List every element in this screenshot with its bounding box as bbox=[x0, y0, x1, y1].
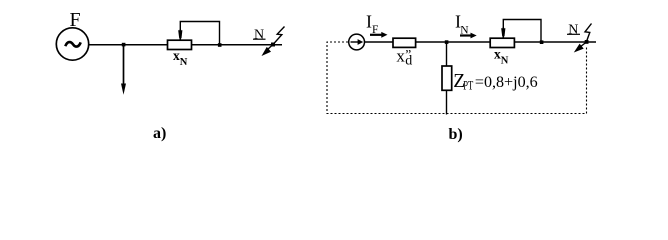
svg-text:N: N bbox=[568, 22, 578, 37]
arrow into box a bbox=[178, 30, 182, 38]
svg-text:x: x bbox=[396, 46, 405, 65]
resistor xN box a bbox=[168, 40, 192, 49]
wire main horizontal bus a bbox=[89, 44, 283, 46]
dotted fault-current loop bbox=[327, 42, 587, 114]
fault lightning symbol b bbox=[585, 24, 592, 42]
wire bypass loop b bbox=[503, 20, 541, 43]
svg-text:=0,8+j0,6: =0,8+j0,6 bbox=[475, 72, 538, 91]
wire down to ZPT bbox=[446, 42, 448, 67]
current source IF bbox=[349, 34, 365, 50]
junction dot loop b bbox=[540, 40, 544, 44]
svg-text:d: d bbox=[405, 54, 412, 69]
wire load branch down bbox=[123, 45, 125, 87]
resistor xN box b bbox=[490, 38, 514, 47]
svg-text:N: N bbox=[254, 28, 264, 43]
junction dot fault a bbox=[271, 43, 275, 47]
wire bypass loop a bbox=[180, 22, 219, 45]
wire main horizontal bus b bbox=[364, 41, 596, 43]
underline of N a bbox=[253, 38, 266, 40]
svg-text:N: N bbox=[501, 55, 509, 66]
junction dot loop a bbox=[218, 43, 222, 47]
fault lightning symbol a bbox=[273, 27, 285, 45]
arrow into box b bbox=[501, 28, 505, 36]
source F (AC generator) bbox=[56, 28, 88, 60]
svg-text:F: F bbox=[70, 9, 81, 31]
svg-text:a): a) bbox=[153, 125, 166, 142]
svg-text:N: N bbox=[180, 57, 188, 68]
current arrow IF bbox=[370, 34, 383, 36]
junction node dot b bbox=[445, 40, 449, 44]
underline of N b bbox=[567, 33, 580, 35]
wire from ZPT to dotted return bbox=[446, 90, 448, 115]
svg-text:b): b) bbox=[449, 126, 463, 143]
junction dot fault b bbox=[585, 40, 589, 44]
reactance x''d box bbox=[393, 38, 416, 47]
node junction dot on bus a bbox=[122, 43, 126, 47]
sine symbol inside source bbox=[65, 42, 80, 47]
current arrow IN bbox=[460, 34, 472, 36]
svg-text:PT: PT bbox=[463, 79, 473, 93]
resistor ZPT box (vertical) bbox=[442, 66, 452, 90]
load arrow down bbox=[121, 84, 126, 95]
